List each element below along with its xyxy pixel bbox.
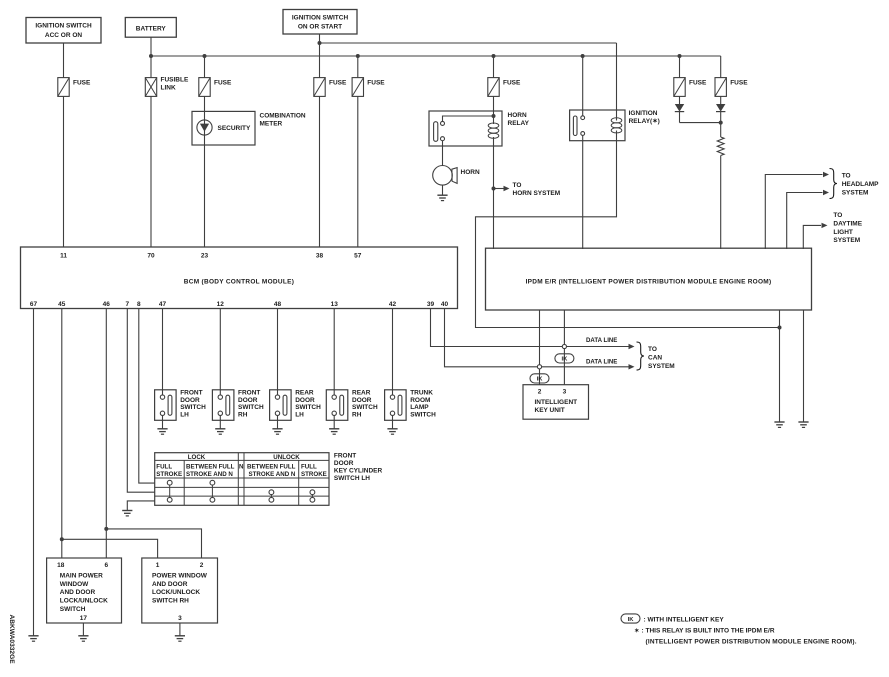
wire: horn relay contact to horn (442, 141, 444, 166)
horn relay internal feed (493, 96, 495, 124)
wire: BCM pin 67 to ground (33, 309, 35, 636)
key cylinder switch table frame (155, 453, 329, 506)
switch: TRUNK ROOM LAMP SWITCH (385, 390, 407, 421)
svg-text:SWITCH: SWITCH (60, 606, 86, 613)
svg-text:FUSE: FUSE (503, 80, 521, 87)
svg-text:AND DOOR: AND DOOR (152, 581, 188, 588)
node: data line junction lower (537, 365, 541, 369)
svg-text:STROKE AND N: STROKE AND N (249, 471, 296, 478)
svg-text:DATA LINE: DATA LINE (586, 358, 617, 365)
svg-text:DOOR: DOOR (295, 397, 315, 404)
node: pin 45 branch (60, 537, 64, 541)
svg-text:48: 48 (274, 301, 282, 308)
svg-text:UNLOCK: UNLOCK (273, 454, 300, 461)
wire: fusible link to BCM pin 70 (150, 96, 152, 247)
horn relay armature bar (434, 122, 438, 142)
svg-text:IGNITION: IGNITION (629, 110, 658, 117)
svg-text:SWITCH: SWITCH (352, 404, 378, 411)
node: junction on ON/START bus (318, 41, 322, 45)
svg-text:LOCK: LOCK (188, 454, 206, 461)
svg-text:STROKE AND N: STROKE AND N (186, 471, 233, 478)
wire: fuse to BCM pin 57 (357, 96, 359, 247)
horn relay coil (488, 123, 499, 128)
svg-text:SWITCH RH: SWITCH RH (152, 597, 189, 604)
svg-text:47: 47 (159, 301, 167, 308)
svg-text:IK: IK (561, 357, 568, 363)
wire: battery bus drop to horn relay fuse (493, 56, 495, 78)
svg-text:DOOR: DOOR (180, 397, 200, 404)
svg-text:LIGHT: LIGHT (833, 229, 853, 236)
switch: REAR DOOR SWITCH LH (270, 390, 292, 421)
svg-text:RELAY(✶): RELAY(✶) (629, 117, 660, 125)
svg-text:LOCK/UNLOCK: LOCK/UNLOCK (60, 597, 108, 604)
svg-text:3: 3 (563, 389, 567, 396)
wire: horn to ground (442, 185, 444, 195)
power source box: IGNITION SWITCH ACC OR ON (26, 18, 101, 44)
wire: branch to power window switch RH pin 2 (106, 529, 201, 558)
wire: BCM to rear door switch lh (277, 309, 279, 390)
wire: horn relay coil output to IPDM (493, 137, 495, 249)
node: data line junction upper (562, 344, 566, 348)
svg-text:SECURITY: SECURITY (218, 125, 252, 132)
ground (REAR DOOR SWITCH RH) (329, 428, 339, 430)
svg-text:KEY UNIT: KEY UNIT (535, 407, 565, 414)
svg-text:SWITCH LH: SWITCH LH (334, 475, 370, 482)
svg-text:BETWEEN FULL: BETWEEN FULL (247, 463, 296, 470)
key cylinder contacts: lock between (210, 480, 215, 485)
svg-text:FULL: FULL (156, 463, 172, 470)
legend: IK oval (621, 614, 640, 623)
svg-text:SWITCH: SWITCH (410, 411, 436, 418)
svg-text:MAIN POWER: MAIN POWER (60, 572, 103, 579)
svg-text:1: 1 (156, 562, 160, 569)
wire: BCM pin 7 to key cylinder row 2 (127, 309, 154, 493)
ground (key cylinder switch) (122, 510, 132, 512)
svg-text:LH: LH (180, 411, 189, 418)
svg-text:BCM (BODY CONTROL MODULE): BCM (BODY CONTROL MODULE) (184, 278, 294, 285)
svg-text:FUSE: FUSE (214, 80, 232, 87)
wire: ACC fuse to BCM pin 11 (63, 96, 65, 247)
diode (right) (716, 104, 725, 112)
wire: pin 17 to ground (82, 623, 84, 636)
svg-text:42: 42 (389, 301, 397, 308)
ground (FRONT DOOR SWITCH LH) (157, 428, 167, 430)
svg-text:CAN: CAN (648, 355, 662, 362)
svg-text:(INTELLIGENT POWER DISTRIBUTIO: (INTELLIGENT POWER DISTRIBUTION MODULE E… (646, 638, 857, 645)
wire: battery bus drop to fuse of security lamp (204, 56, 206, 78)
svg-text:HORN: HORN (508, 112, 527, 119)
svg-text:FUSE: FUSE (730, 80, 748, 87)
svg-text:METER: METER (260, 120, 283, 127)
svg-text:DOOR: DOOR (334, 460, 354, 467)
wire: resistor to IPDM (720, 156, 722, 250)
IK connector oval lower (530, 374, 549, 383)
module: main power window and door lock/unlock switch (47, 558, 122, 623)
svg-text:SWITCH: SWITCH (238, 404, 264, 411)
svg-text:LINK: LINK (161, 85, 176, 92)
svg-text:TO: TO (833, 212, 842, 219)
ground (REAR DOOR SWITCH LH) (272, 428, 282, 430)
wire: IPDM to daytime light system (803, 225, 821, 249)
svg-text:✶: ✶ (634, 628, 639, 635)
svg-text:BETWEEN FULL: BETWEEN FULL (186, 463, 235, 470)
svg-text:8: 8 (137, 301, 141, 308)
node: ground bus junction (778, 326, 782, 330)
svg-text:FULL: FULL (301, 463, 317, 470)
ground (TRUNK ROOM LAMP SWITCH) (387, 428, 397, 430)
wire: IPDM to headlamp system 2 (787, 193, 823, 250)
horn symbol (433, 166, 453, 186)
wire: fuse to diode right (720, 96, 722, 104)
svg-text:2: 2 (538, 389, 542, 396)
svg-text:SYSTEM: SYSTEM (842, 190, 869, 197)
wire: battery feed bus (150, 37, 152, 77)
wire: ACC feed to fuse (63, 43, 65, 78)
svg-text:FUSE: FUSE (367, 80, 385, 87)
svg-text:: WITH INTELLIGENT KEY: : WITH INTELLIGENT KEY (644, 616, 725, 623)
svg-text:SWITCH: SWITCH (295, 404, 321, 411)
horn relay box (429, 111, 502, 146)
svg-text:ON OR START: ON OR START (298, 24, 342, 31)
svg-text:FRONT: FRONT (334, 452, 356, 459)
svg-text:IPDM E/R (INTELLIGENT POWER DI: IPDM E/R (INTELLIGENT POWER DISTRIBUTION… (526, 279, 772, 286)
ignition relay box (570, 110, 625, 141)
svg-text:POWER WINDOW: POWER WINDOW (152, 572, 208, 579)
module: power window and door lock/unlock switch RH (142, 558, 218, 623)
svg-text:IGNITION SWITCH: IGNITION SWITCH (35, 23, 92, 30)
wire: ignition ON/START feed bus (319, 34, 321, 78)
wire: diode outputs joined (680, 122, 721, 124)
svg-text:57: 57 (354, 253, 362, 260)
svg-text:: THIS RELAY IS BUILT INTO THE: : THIS RELAY IS BUILT INTO THE IPDM E/R (642, 628, 775, 635)
wire: ignition relay coil to ground bus (476, 131, 780, 328)
svg-text:ABKWA0332GE: ABKWA0332GE (8, 615, 15, 665)
svg-text:REAR: REAR (352, 390, 371, 397)
svg-text:RELAY: RELAY (508, 120, 530, 127)
ground (IPDM 1) (774, 421, 784, 423)
svg-text:46: 46 (103, 301, 111, 308)
svg-text:KEY CYLINDER: KEY CYLINDER (334, 467, 383, 474)
svg-text:LH: LH (295, 411, 304, 418)
node: to horn system tap (492, 187, 496, 191)
svg-text:6: 6 (104, 562, 108, 569)
svg-text:DATA LINE: DATA LINE (586, 337, 617, 344)
svg-text:REAR: REAR (295, 390, 314, 397)
svg-text:RH: RH (238, 411, 248, 418)
node: battery bus junctions (149, 54, 153, 58)
wire: IPDM ground 2 (803, 310, 805, 422)
wire: BCM pin 39 data line (431, 309, 629, 347)
svg-text:23: 23 (201, 253, 209, 260)
switch: REAR DOOR SWITCH RH (326, 390, 348, 421)
node: pin 46 branch (104, 527, 108, 531)
wire: BCM pin 8 to key cylinder row 1 (139, 309, 155, 484)
wire: battery bus drop to fuse of BCM pin 57 (357, 56, 359, 78)
svg-text:3: 3 (178, 615, 182, 622)
wire: IPDM to headlamp system 1 (765, 175, 822, 250)
svg-text:FUSE: FUSE (689, 80, 707, 87)
fuse (horn relay) (488, 78, 499, 97)
svg-text:SYSTEM: SYSTEM (648, 363, 675, 370)
svg-text:11: 11 (60, 253, 67, 260)
svg-text:AND DOOR: AND DOOR (60, 589, 96, 596)
svg-text:67: 67 (30, 301, 38, 308)
ignition relay armature bar (573, 116, 577, 136)
svg-text:13: 13 (331, 301, 339, 308)
svg-text:SYSTEM: SYSTEM (833, 237, 860, 244)
brace: to CAN system (637, 342, 645, 370)
diode (left) (675, 104, 684, 112)
svg-text:BATTERY: BATTERY (136, 25, 167, 32)
wire: BCM pin 46 to main power window switch pin 6 (105, 309, 107, 559)
wire: BCM pin 40 data line (445, 309, 629, 367)
wire: fuse to BCM pin 38 (319, 96, 321, 247)
IK connector oval upper (555, 354, 574, 363)
wire: branch to power window switch RH pin 1 (62, 539, 158, 558)
svg-text:LAMP: LAMP (410, 404, 429, 411)
svg-text:70: 70 (147, 253, 155, 260)
combination meter box (192, 111, 255, 145)
wire: BCM to trunk room lamp switch (392, 309, 394, 390)
wire: BCM to front door switch lh (162, 309, 164, 390)
svg-text:TO: TO (513, 182, 522, 189)
resistor (720, 123, 722, 137)
ground (power window switch RH) (175, 635, 185, 637)
wire: pin 3 to ground (179, 623, 181, 636)
wire: IPDM to intelligent key unit pin 3 (563, 310, 565, 385)
svg-text:7: 7 (125, 301, 129, 308)
switch: FRONT DOOR SWITCH RH (212, 390, 234, 421)
wire: BCM to rear door switch rh (333, 309, 335, 390)
svg-text:RH: RH (352, 411, 362, 418)
svg-text:LOCK/UNLOCK: LOCK/UNLOCK (152, 589, 200, 596)
svg-text:INTELLIGENT: INTELLIGENT (535, 399, 578, 406)
svg-text:STROKE: STROKE (301, 471, 327, 478)
module: intelligent key unit (523, 385, 589, 420)
switch: FRONT DOOR SWITCH LH (155, 390, 177, 421)
svg-text:12: 12 (217, 301, 225, 308)
ground (IPDM 2) (798, 421, 808, 423)
fuse (battery to BCM pin 57) (352, 78, 363, 97)
wire: battery bus corner drop to second fuse (720, 56, 722, 78)
ground (BCM pin 67) (28, 635, 38, 637)
svg-text:IGNITION SWITCH: IGNITION SWITCH (292, 14, 349, 21)
fuse (ACC feed) (58, 78, 69, 97)
wire: key cylinder common to ground (127, 501, 154, 511)
svg-text:COMBINATION: COMBINATION (260, 112, 306, 119)
key cylinder contacts: unlock full stroke (310, 490, 315, 495)
svg-text:HORN: HORN (461, 169, 480, 176)
wire: fuse to security lamp and BCM pin 23 (204, 96, 206, 247)
power source box: BATTERY (125, 18, 176, 38)
node: diode junction (719, 121, 723, 125)
ground (main power window switch) (78, 635, 88, 637)
svg-text:STROKE: STROKE (156, 471, 182, 478)
svg-text:18: 18 (57, 562, 65, 569)
svg-text:17: 17 (80, 615, 88, 622)
svg-text:FUSIBLE: FUSIBLE (161, 77, 189, 84)
fuse (ignition ON/START to BCM pin 38) (314, 78, 325, 97)
svg-text:TO: TO (648, 346, 657, 353)
svg-text:IK: IK (628, 617, 635, 623)
ground (FRONT DOOR SWITCH RH) (215, 428, 225, 430)
svg-text:FUSE: FUSE (73, 80, 91, 87)
svg-text:TO: TO (842, 173, 851, 180)
svg-text:DAYTIME: DAYTIME (833, 220, 862, 227)
brace: headlamp system (830, 169, 838, 199)
svg-text:WINDOW: WINDOW (60, 581, 89, 588)
ignition relay coil (611, 118, 622, 123)
wire: IPDM to intelligent key unit pin 2 (539, 310, 541, 385)
key cylinder contacts: lock full stroke (167, 480, 172, 485)
horn relay contact circles (441, 121, 445, 125)
module: IPDM E/R (486, 248, 812, 310)
wire: battery bus drop to headlamp fuse (679, 56, 681, 78)
wire: IPDM ground 1 (779, 310, 781, 422)
svg-text:DOOR: DOOR (238, 397, 258, 404)
svg-text:SWITCH: SWITCH (180, 404, 206, 411)
svg-text:HEADLAMP: HEADLAMP (842, 181, 879, 188)
svg-text:45: 45 (58, 301, 66, 308)
svg-text:ACC OR ON: ACC OR ON (45, 32, 83, 39)
power source box: IGNITION SWITCH ON OR START (283, 10, 357, 35)
svg-text:DOOR: DOOR (352, 397, 372, 404)
svg-text:HORN SYSTEM: HORN SYSTEM (513, 190, 561, 197)
svg-text:2: 2 (200, 562, 204, 569)
ignition relay contact circles (581, 116, 585, 120)
svg-text:N: N (239, 463, 244, 470)
svg-text:FRONT: FRONT (238, 390, 260, 397)
wire: ON/START bus to ignition relay coil (616, 43, 618, 121)
wire: fuse to diode left (679, 96, 681, 104)
wire: BCM pin 45 to main power window switch pin 18 (61, 309, 63, 559)
svg-text:TRUNK: TRUNK (410, 390, 433, 397)
fuse (security lamp) (199, 78, 210, 97)
security indicator lamp (197, 120, 212, 135)
ground (horn) (437, 194, 447, 196)
module: BCM (BODY CONTROL MODULE) (21, 247, 458, 309)
fusible link (battery feed) (145, 78, 156, 97)
svg-text:FRONT: FRONT (180, 390, 202, 397)
svg-text:40: 40 (441, 301, 449, 308)
svg-text:39: 39 (427, 301, 435, 308)
svg-text:IK: IK (537, 377, 544, 383)
key cylinder contacts: unlock between (269, 490, 274, 495)
svg-text:38: 38 (316, 253, 324, 260)
fuse (headlamp feed right) (715, 78, 726, 97)
svg-text:FUSE: FUSE (329, 80, 347, 87)
svg-text:ROOM: ROOM (410, 397, 430, 404)
wire: battery bus drop to ignition relay contact (582, 56, 584, 116)
wire: BCM to front door switch rh (219, 309, 221, 390)
fuse (headlamp feed left) (674, 78, 685, 97)
wire: ignition relay contact to IPDM (582, 135, 584, 249)
